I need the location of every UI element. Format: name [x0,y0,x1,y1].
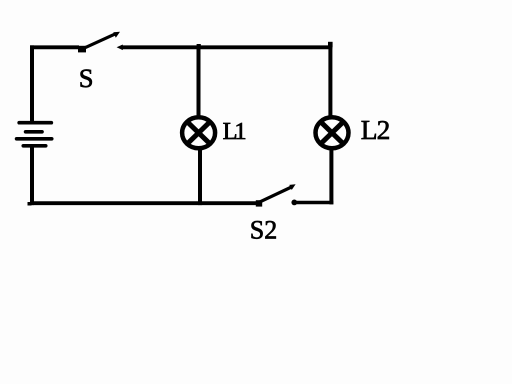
node junction bump at top-right corner [328,42,333,48]
node junction bump above L1 branch [197,44,201,47]
lamp L1 circle [182,117,215,148]
svg-text:S: S [79,63,94,93]
wire bottom horizontal (left corner to switch S2) [30,201,257,205]
svg-text:S2: S2 [250,216,277,245]
wire L1 branch vertical upper [197,45,201,117]
wire L1 branch vertical lower [198,149,202,205]
battery B plate 3 (long positive) [17,137,52,141]
switch S right contact arrowhead [117,45,123,51]
switch S blade tip arrowhead [113,32,120,38]
lamp L2 circle [316,117,349,148]
wire left vertical upper (top corner down to battery) [30,45,34,122]
wire left vertical lower (battery down to bottom corner) [30,146,34,205]
wire L2 branch vertical upper [328,45,332,117]
wire top horizontal (switch S to top-right corner) [121,45,332,49]
battery B plate 2 (short negative) [26,130,42,134]
switch S left contact dot [78,46,86,53]
switch S2 blade [259,187,292,202]
switch S blade [82,34,116,50]
battery B plate 1 (long positive, top) [19,121,51,125]
switch S2 right contact dot [291,200,297,206]
svg-text:L2: L2 [361,114,390,145]
switch S2 left contact dot [256,200,262,206]
wire L2 branch vertical lower [329,149,333,205]
wire bottom horizontal (S2 right contact to bottom-right corner) [296,201,333,205]
lamp L1 cross stroke 1 [187,121,211,144]
bottom-left corner nub [28,202,32,206]
switch S2 blade tip arrowhead [289,184,295,190]
wire top-left horizontal (battery + to switch S) [30,45,79,49]
lamp L2 cross stroke 1 [320,121,344,144]
lamp L2 cross stroke 2 [320,121,344,144]
lamp L1 cross stroke 2 [187,121,211,144]
svg-text:L1: L1 [223,118,246,145]
battery B plate 4 (short negative, bottom) [23,144,45,148]
